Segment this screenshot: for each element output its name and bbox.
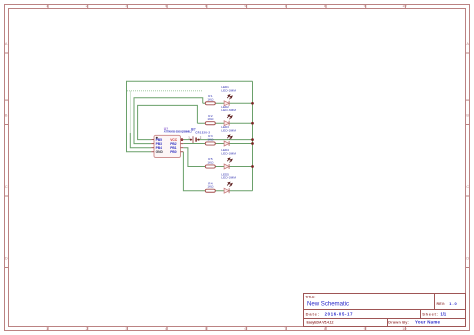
svg-text:2016-05-17: 2016-05-17	[325, 311, 354, 316]
svg-text:Your Name: Your Name	[415, 319, 441, 324]
LED LED5	[221, 172, 236, 193]
svg-text:2: 2	[86, 4, 88, 8]
junction row1 / bus	[251, 102, 254, 105]
LED LED4	[221, 148, 236, 169]
svg-text:10: 10	[402, 327, 406, 331]
svg-text:9: 9	[364, 327, 366, 331]
svg-text:GND: GND	[156, 150, 164, 154]
svg-text:1KΩ: 1KΩ	[207, 161, 214, 165]
svg-text:D: D	[466, 257, 469, 261]
svg-text:9: 9	[364, 4, 366, 8]
wire row 4 (net PB1)	[183, 148, 252, 167]
svg-text:1KΩ: 1KΩ	[207, 138, 214, 142]
svg-text:B: B	[5, 114, 8, 118]
svg-text:8: 8	[324, 4, 326, 8]
net VCC: wire from VCC pin through battery B? to bus	[183, 139, 252, 141]
IC U? ATTINY85 body	[154, 135, 181, 157]
svg-text:6: 6	[245, 4, 247, 8]
svg-text:B: B	[466, 114, 469, 118]
resistor R2	[205, 114, 215, 125]
net GND: right cathode bus wire	[252, 81, 254, 190]
wire row 1	[203, 102, 253, 104]
LED LED1	[221, 85, 236, 106]
svg-text:LED-3MM: LED-3MM	[221, 88, 236, 92]
net PB5: loop wire feeding row 2	[138, 105, 198, 139]
svg-text:LED-3MM: LED-3MM	[221, 152, 236, 156]
IC U? right pin stubs (VCC PB2 PB1 PB0)	[181, 140, 184, 152]
svg-text:A: A	[5, 42, 8, 46]
svg-text:Sheet:: Sheet:	[422, 312, 438, 317]
svg-text:Drawn By:: Drawn By:	[388, 320, 409, 324]
svg-text:3: 3	[125, 4, 127, 8]
net PB3: loop wire feeding row 1	[134, 98, 203, 144]
title block	[304, 294, 466, 327]
wire row 2	[197, 122, 252, 124]
svg-text:TITLE:: TITLE:	[305, 295, 315, 299]
junction row4 / bus	[251, 165, 254, 168]
svg-text:4: 4	[165, 4, 167, 8]
svg-text:C: C	[5, 185, 8, 189]
svg-text:1KΩ: 1KΩ	[207, 97, 214, 101]
net PB4: loop wire (faint)	[127, 91, 202, 148]
svg-text:1KΩ: 1KΩ	[207, 185, 214, 189]
LED LED3	[221, 125, 236, 146]
svg-text:1/1: 1/1	[441, 311, 447, 316]
LED LED2	[221, 105, 236, 126]
battery B? CR1220-2 plates	[193, 136, 196, 143]
resistor R4	[205, 181, 215, 192]
svg-text:C: C	[466, 185, 469, 189]
IC U? pin names	[156, 138, 178, 154]
svg-text:1: 1	[46, 327, 48, 331]
wire row 5 (net PB0)	[183, 152, 252, 191]
svg-text:EasyEDA V5.4.12: EasyEDA V5.4.12	[307, 320, 334, 324]
svg-text:D: D	[5, 257, 8, 261]
resistor R5	[205, 157, 215, 168]
net GND: left outer loop wire	[127, 81, 253, 151]
svg-text:ATTINY85-20SU(208MIL): ATTINY85-20SU(208MIL)	[164, 130, 192, 134]
svg-text:New Schematic: New Schematic	[307, 301, 349, 308]
svg-text:2: 2	[86, 327, 88, 331]
resistor R3	[205, 134, 215, 145]
svg-text:A: A	[466, 42, 469, 46]
svg-text:LED-3MM: LED-3MM	[221, 129, 236, 133]
svg-text:3: 3	[125, 327, 127, 331]
IC U? left pin stubs (PB5 PB3 PB4 GND)	[151, 140, 154, 152]
svg-text:LED-3MM: LED-3MM	[221, 108, 236, 112]
junction row2 / bus	[251, 122, 254, 125]
junction at IC VCC pin	[181, 138, 184, 141]
svg-text:7: 7	[284, 327, 286, 331]
junction VCC wire / bus	[251, 138, 254, 141]
junction battery pin 2	[198, 139, 200, 141]
junction battery pin 1	[190, 139, 192, 141]
svg-text:10: 10	[402, 4, 406, 8]
svg-text:Date:: Date:	[306, 311, 320, 316]
svg-text:6: 6	[245, 327, 247, 331]
wire row 3 (net PB2)	[183, 143, 252, 145]
svg-text:5: 5	[205, 327, 207, 331]
svg-text:1.0: 1.0	[449, 301, 456, 306]
svg-text:4: 4	[165, 327, 167, 331]
svg-text:LED-3MM: LED-3MM	[221, 176, 236, 180]
svg-text:1KΩ: 1KΩ	[207, 117, 214, 121]
svg-text:1: 1	[46, 4, 48, 8]
svg-text:5: 5	[205, 4, 207, 8]
junction row3 / bus	[251, 142, 254, 145]
resistor R1	[205, 94, 215, 105]
svg-text:PB0: PB0	[170, 150, 177, 154]
svg-text:8: 8	[324, 327, 326, 331]
svg-text:7: 7	[284, 4, 286, 8]
svg-text:REV:: REV:	[437, 302, 446, 306]
